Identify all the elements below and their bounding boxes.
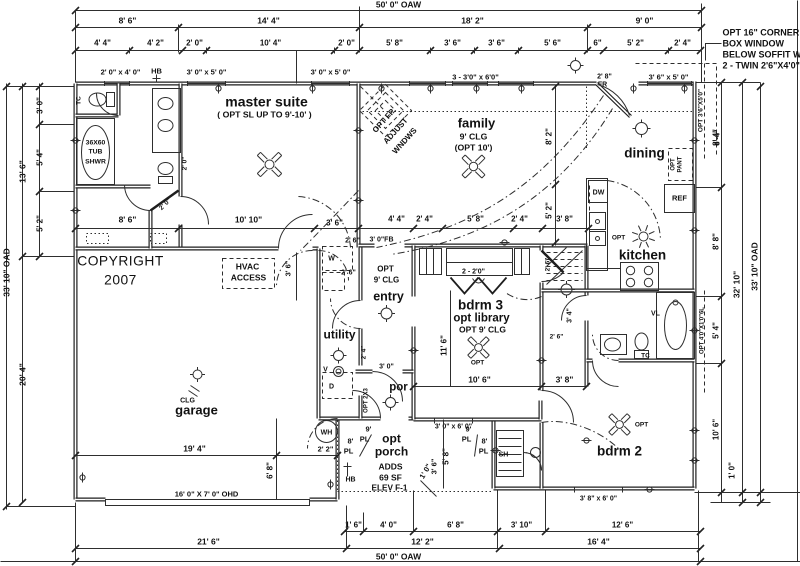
svg-text:50' 0" OAW: 50' 0" OAW [376, 552, 422, 562]
svg-text:HB: HB [151, 67, 162, 76]
svg-text:WH: WH [321, 430, 333, 437]
svg-text:HVAC: HVAC [236, 262, 259, 272]
svg-text:9' CLG: 9' CLG [460, 132, 488, 142]
svg-text:SHWR: SHWR [85, 159, 106, 166]
svg-text:OPT: OPT [671, 158, 677, 171]
svg-text:kitchen: kitchen [619, 248, 666, 263]
svg-text:3' 6": 3' 6" [444, 39, 461, 48]
svg-text:OPT: OPT [635, 422, 648, 429]
svg-text:36X60: 36X60 [86, 140, 106, 147]
svg-text:12' 2": 12' 2" [411, 537, 434, 547]
svg-text:5' 8": 5' 8" [386, 39, 403, 48]
svg-text:family: family [458, 116, 496, 131]
svg-text:4' 4": 4' 4" [94, 39, 111, 48]
svg-text:OPT 16" CORNER: OPT 16" CORNER [723, 28, 800, 38]
svg-text:D: D [329, 384, 334, 391]
svg-text:SH: SH [499, 452, 509, 459]
svg-text:8' 2": 8' 2" [545, 128, 554, 145]
svg-text:PL: PL [479, 447, 489, 456]
svg-text:16' 4": 16' 4" [587, 537, 610, 547]
svg-text:6": 6" [593, 39, 601, 48]
svg-text:2 - TWIN 2'6"X4'0": 2 - TWIN 2'6"X4'0" [723, 61, 800, 71]
svg-text:3' 6": 3' 6" [326, 219, 343, 228]
svg-text:DW: DW [593, 190, 605, 197]
svg-text:1' 0": 1' 0" [728, 462, 737, 479]
svg-text:20' 4": 20' 4" [18, 363, 28, 386]
svg-text:VL: VL [651, 311, 661, 318]
svg-text:9': 9' [366, 425, 372, 434]
svg-text:TC: TC [76, 96, 83, 105]
svg-text:5' 8": 5' 8" [442, 448, 451, 465]
svg-text:HB: HB [345, 477, 355, 484]
svg-text:10' 6": 10' 6" [712, 419, 721, 440]
svg-text:5' 4": 5' 4" [36, 149, 45, 166]
svg-text:10' 10": 10' 10" [235, 215, 262, 225]
svg-text:bdrm 3: bdrm 3 [458, 298, 504, 313]
svg-text:2' 4": 2' 4" [416, 215, 433, 224]
svg-text:5' 2": 5' 2" [36, 215, 45, 232]
svg-text:3' 0": 3' 0" [36, 97, 45, 114]
svg-text:33' 10" OAD: 33' 10" OAD [2, 248, 12, 297]
svg-text:2' 0" x 4' 0": 2' 0" x 4' 0" [101, 68, 141, 77]
svg-text:CLG: CLG [180, 398, 195, 405]
svg-text:33' 10" OAD: 33' 10" OAD [750, 242, 760, 291]
svg-text:6' 8": 6' 8" [447, 521, 464, 530]
svg-text:10' 6": 10' 6" [468, 375, 491, 385]
svg-text:OPT 3'6"X5'0": OPT 3'6"X5'0" [698, 89, 705, 132]
svg-text:PL: PL [344, 447, 354, 456]
svg-text:9' CLG: 9' CLG [374, 276, 399, 285]
svg-text:10' 4": 10' 4" [260, 39, 281, 48]
svg-text:3' 6": 3' 6" [284, 260, 293, 276]
svg-text:8' 6": 8' 6" [119, 215, 137, 225]
svg-text:3' 6" x 5' 0": 3' 6" x 5' 0" [649, 73, 689, 82]
svg-text:REF: REF [672, 194, 687, 203]
svg-text:ADDS: ADDS [378, 462, 402, 472]
svg-text:OPT: OPT [471, 360, 484, 367]
svg-text:18' 2": 18' 2" [461, 16, 484, 26]
svg-text:5' 8": 5' 8" [467, 215, 484, 224]
svg-text:2' 2": 2' 2" [318, 445, 334, 454]
svg-text:1' 6": 1' 6" [345, 521, 362, 530]
svg-text:3' 6": 3' 6" [488, 39, 505, 48]
svg-text:3' 10": 3' 10" [511, 521, 532, 530]
svg-text:19' 4": 19' 4" [183, 444, 206, 454]
svg-text:V: V [323, 367, 328, 374]
svg-text:2' 4": 2' 4" [511, 215, 528, 224]
svg-text:OPT: OPT [612, 235, 625, 242]
svg-text:5' 2": 5' 2" [545, 202, 554, 219]
svg-text:BOX WINDOW: BOX WINDOW [723, 39, 785, 49]
svg-text:14' 4": 14' 4" [257, 16, 280, 26]
svg-text:3' 0" x 5' 0": 3' 0" x 5' 0" [311, 68, 351, 77]
svg-text:9' 0": 9' 0" [636, 16, 654, 26]
svg-text:TC: TC [641, 353, 650, 360]
svg-text:2' 4": 2' 4" [674, 39, 691, 48]
svg-text:master suite: master suite [225, 94, 308, 110]
svg-text:OPT 9' CLG: OPT 9' CLG [459, 325, 506, 335]
svg-text:4' 4": 4' 4" [388, 215, 405, 224]
svg-text:6' 8": 6' 8" [266, 462, 275, 479]
svg-text:2 - 2'0": 2 - 2'0" [462, 269, 485, 276]
svg-text:ACCESS: ACCESS [231, 273, 267, 283]
svg-text:COPYRIGHT: COPYRIGHT [77, 254, 164, 269]
svg-text:4' 0": 4' 0" [380, 521, 397, 530]
svg-text:PL: PL [462, 435, 472, 444]
svg-text:dining: dining [624, 146, 665, 161]
svg-text:8' 6": 8' 6" [119, 16, 137, 26]
svg-text:8': 8' [348, 437, 354, 446]
svg-text:utility: utility [324, 328, 356, 342]
svg-text:69 SF: 69 SF [379, 473, 402, 483]
svg-text:21' 6": 21' 6" [197, 537, 220, 547]
svg-text:2' 4": 2' 4" [361, 346, 368, 360]
svg-text:ELEV F-1: ELEV F-1 [372, 484, 408, 493]
svg-text:garage: garage [175, 403, 218, 418]
svg-text:2007: 2007 [104, 273, 137, 288]
svg-text:11' 6": 11' 6" [440, 335, 449, 356]
svg-text:5' 6": 5' 6" [544, 39, 561, 48]
svg-text:3' 8" x 6' 0": 3' 8" x 6' 0" [580, 496, 617, 503]
svg-text:8': 8' [482, 437, 488, 446]
svg-text:OPT 2X3: OPT 2X3 [364, 388, 370, 413]
svg-text:3' 0": 3' 0" [379, 364, 394, 371]
svg-text:3' 8": 3' 8" [556, 215, 573, 224]
svg-text:2' 0": 2' 0" [186, 39, 203, 48]
svg-text:2' 8": 2' 8" [597, 74, 612, 81]
svg-text:50' 0" OAW: 50' 0" OAW [376, 0, 422, 10]
svg-text:2' 6": 2' 6" [545, 258, 552, 272]
svg-text:3 - 3'0" x 6'0": 3 - 3'0" x 6'0" [452, 73, 499, 82]
svg-text:TUB: TUB [89, 149, 103, 156]
svg-text:8' 4": 8' 4" [712, 129, 721, 146]
svg-text:2' 0": 2' 0" [338, 39, 355, 48]
svg-text:2' 6": 2' 6" [345, 238, 360, 245]
svg-text:3' 6": 3' 6" [430, 458, 439, 474]
svg-text:16' 0" X 7' 0" OHD: 16' 0" X 7' 0" OHD [175, 490, 239, 499]
svg-text:entry: entry [373, 290, 404, 304]
svg-text:opt library: opt library [453, 313, 510, 325]
svg-text:3' 0"FB: 3' 0"FB [369, 237, 393, 244]
svg-text:2' 6": 2' 6" [341, 270, 356, 277]
svg-text:4' 2": 4' 2" [147, 39, 164, 48]
svg-text:OPT: OPT [377, 265, 394, 274]
svg-text:porch: porch [375, 445, 408, 459]
svg-text:3' 0" x 5' 0": 3' 0" x 5' 0" [187, 68, 227, 77]
svg-text:5' 2": 5' 2" [627, 39, 644, 48]
svg-text:5' 4": 5' 4" [712, 322, 721, 339]
svg-text:12' 6": 12' 6" [612, 521, 633, 530]
svg-text:opt: opt [382, 432, 401, 446]
svg-text:bdrm 2: bdrm 2 [597, 444, 642, 459]
svg-text:3' 4": 3' 4" [567, 308, 574, 323]
svg-text:32' 10": 32' 10" [732, 271, 742, 298]
svg-text:OPT 4'0"X1'0"6L: OPT 4'0"X1'0"6L [700, 307, 706, 354]
svg-text:2' 0": 2' 0" [182, 157, 189, 171]
svg-text:BELOW SOFFIT W/: BELOW SOFFIT W/ [723, 50, 800, 60]
svg-text:( OPT SL UP TO 9'-10' ): ( OPT SL UP TO 9'-10' ) [217, 110, 312, 120]
svg-text:PANT: PANT [678, 156, 684, 172]
svg-text:PL: PL [360, 435, 370, 444]
svg-text:9': 9' [466, 425, 472, 434]
svg-text:(OPT 10'): (OPT 10') [455, 143, 493, 153]
svg-text:W: W [328, 256, 335, 263]
svg-text:3' 8": 3' 8" [556, 375, 574, 385]
svg-text:2' 6": 2' 6" [550, 334, 564, 341]
svg-text:13' 6": 13' 6" [18, 160, 28, 183]
svg-text:8' 8": 8' 8" [712, 233, 721, 250]
